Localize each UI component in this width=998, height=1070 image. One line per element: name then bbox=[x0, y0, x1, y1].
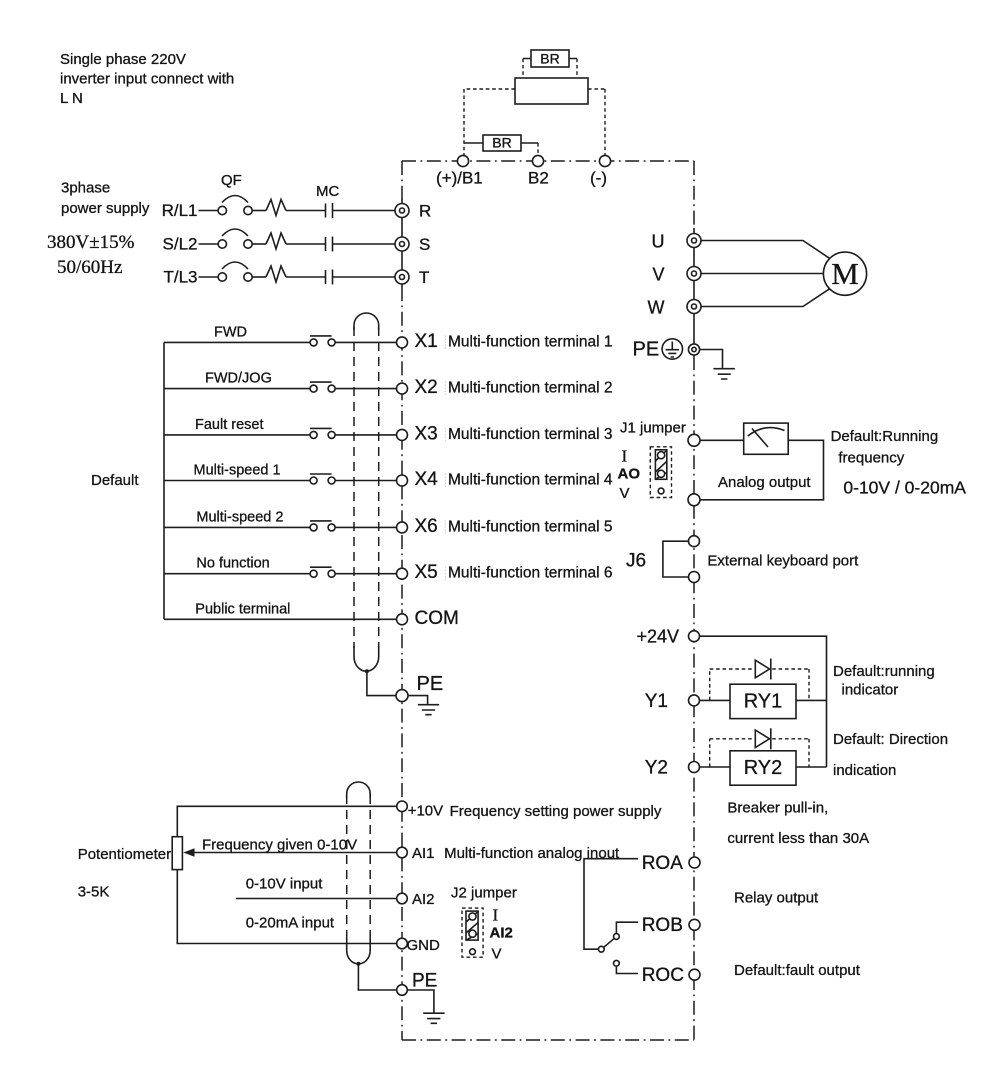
svg-text:indication: indication bbox=[833, 762, 896, 779]
svg-text:B2: B2 bbox=[528, 169, 549, 188]
terminal X6 bbox=[397, 522, 408, 533]
wire S/L2 to breaker bbox=[199, 243, 219, 245]
wire contactor to terminal T bbox=[333, 276, 396, 278]
inverter enclosure left edge bbox=[401, 161, 403, 198]
terminal GND bbox=[397, 937, 440, 954]
resistor BR (top) bbox=[523, 50, 577, 67]
breaker QF pole T bbox=[218, 273, 226, 281]
wire +10V loop bbox=[177, 806, 396, 836]
svg-text:inverter input connect with: inverter input connect with bbox=[60, 71, 234, 88]
svg-text:X3: X3 bbox=[415, 423, 438, 444]
wire RY1 to 24V rail bbox=[796, 699, 827, 701]
terminal B2 bbox=[532, 155, 543, 166]
svg-text:External keyboard port: External keyboard port bbox=[707, 553, 859, 570]
overload zigzag R bbox=[266, 200, 286, 216]
wire switch to terminal X5 bbox=[335, 573, 397, 575]
switch X5 bbox=[310, 570, 317, 577]
wire dashed reactor left to (+)/B1 bbox=[464, 89, 515, 155]
wire AO to meter bbox=[700, 439, 744, 441]
svg-text:X6: X6 bbox=[415, 516, 438, 537]
wire PE to ground bbox=[700, 350, 723, 369]
svg-text:X5: X5 bbox=[415, 562, 438, 583]
svg-text:S/L2: S/L2 bbox=[163, 235, 198, 254]
wire AI2 bbox=[236, 898, 397, 900]
shielded cable (digital inputs) bbox=[354, 313, 397, 696]
switch X3 bbox=[310, 431, 317, 438]
svg-text:Y1: Y1 bbox=[645, 691, 668, 712]
inverter enclosure bottom edge bbox=[402, 1039, 694, 1041]
relay common contact bbox=[598, 946, 604, 952]
wire overload to contactor T bbox=[286, 276, 326, 278]
wire shield 2 to PE bbox=[358, 964, 396, 990]
input bus wire (left) bbox=[163, 342, 165, 619]
svg-text:FWD: FWD bbox=[214, 324, 247, 340]
svg-text:Default: Direction: Default: Direction bbox=[833, 731, 948, 748]
svg-text:+10V: +10V bbox=[408, 803, 443, 820]
wire bus to switch X6 bbox=[164, 526, 310, 528]
terminal S bbox=[395, 237, 409, 251]
relay coil RY1 bbox=[730, 684, 796, 718]
wire AI1 with arrow to pot bbox=[193, 852, 397, 854]
switch X1 bbox=[310, 339, 317, 346]
wire U to motor bbox=[701, 241, 830, 259]
svg-text:T/L3: T/L3 bbox=[163, 268, 197, 287]
wire switch to terminal X2 bbox=[335, 388, 397, 390]
svg-text:BR: BR bbox=[492, 135, 511, 151]
svg-text:J1 jumper: J1 jumper bbox=[620, 420, 686, 437]
svg-text:Default: Default bbox=[91, 472, 139, 489]
wire contactor to terminal R bbox=[333, 210, 396, 212]
wire R/L1 to breaker bbox=[199, 210, 219, 212]
svg-text:current less than 30A: current less than 30A bbox=[727, 830, 869, 847]
svg-text:(+)/B1: (+)/B1 bbox=[436, 169, 483, 188]
svg-text:Public terminal: Public terminal bbox=[195, 601, 290, 617]
svg-text:3phase: 3phase bbox=[61, 180, 110, 197]
terminal PE (control) bbox=[396, 673, 443, 702]
svg-text:No function: No function bbox=[196, 556, 269, 572]
inverter enclosure right edge bbox=[693, 161, 695, 228]
svg-text:V: V bbox=[620, 485, 630, 502]
input COM (Public terminal) bbox=[164, 601, 459, 629]
svg-text:J2 jumper: J2 jumper bbox=[451, 885, 517, 902]
terminal ROC bbox=[642, 965, 700, 986]
svg-text:FWD/JOG: FWD/JOG bbox=[205, 371, 272, 387]
svg-text:indicator: indicator bbox=[842, 681, 899, 698]
svg-text:X4: X4 bbox=[415, 469, 439, 490]
freewheel diode RY1 (dashed branch) bbox=[710, 659, 809, 701]
shielded cable (analog inputs) bbox=[347, 782, 397, 990]
svg-text:X2: X2 bbox=[415, 377, 438, 398]
switch X4 bbox=[310, 477, 317, 484]
connector J6 bbox=[626, 536, 700, 583]
wire meter loop to AO common bbox=[700, 440, 824, 500]
wire bus to switch X1 bbox=[164, 341, 310, 343]
wire breaker to overload S bbox=[252, 243, 266, 245]
contactor MC contact S bbox=[325, 237, 327, 251]
terminal (+)/B1 bbox=[457, 155, 468, 166]
svg-text:Y2: Y2 bbox=[645, 758, 668, 779]
terminal +10V bbox=[397, 801, 443, 820]
wire switch to terminal X3 bbox=[335, 434, 397, 436]
svg-text:Relay output: Relay output bbox=[734, 890, 819, 907]
terminal PE (analog) bbox=[397, 971, 438, 996]
terminal X2 bbox=[397, 383, 408, 394]
wire Y2 to RY2 bbox=[700, 766, 731, 768]
shield drain junction 2 bbox=[356, 962, 360, 966]
terminal V bbox=[652, 264, 701, 284]
jumper J1 bbox=[618, 420, 686, 503]
svg-text:RY1: RY1 bbox=[744, 690, 783, 712]
terminal T bbox=[395, 270, 409, 284]
wire dashed BR top to reactor box bbox=[523, 59, 577, 79]
switch X6 bbox=[310, 524, 317, 531]
svg-text:PE: PE bbox=[417, 673, 444, 695]
wire switch to terminal X6 bbox=[335, 526, 397, 528]
terminal X3 bbox=[397, 429, 408, 440]
terminal PE (output side) bbox=[633, 339, 700, 361]
wire dashed BR lower to B2 bbox=[537, 143, 539, 155]
terminal X5 bbox=[397, 568, 408, 579]
contactor MC contact T bbox=[325, 270, 327, 284]
terminal AO common bbox=[688, 494, 700, 506]
terminal X1 bbox=[397, 337, 408, 348]
svg-text:+24V: +24V bbox=[637, 627, 680, 647]
jumper J2 bbox=[451, 885, 517, 963]
ground (output PE) bbox=[713, 369, 735, 379]
wire bus to switch X2 bbox=[164, 388, 310, 390]
svg-text:Multi-function terminal 2: Multi-function terminal 2 bbox=[448, 380, 613, 397]
wire pot lower to GND bbox=[177, 870, 396, 944]
relay NC contact ROC bbox=[614, 960, 620, 966]
svg-text:GND: GND bbox=[407, 937, 441, 954]
motor M bbox=[823, 252, 866, 295]
svg-text:Multi-function terminal 5: Multi-function terminal 5 bbox=[448, 518, 613, 535]
svg-text:ROB: ROB bbox=[642, 915, 683, 936]
wire +24V rail bbox=[700, 636, 827, 767]
wire breaker to overload T bbox=[252, 276, 266, 278]
wire W to motor bbox=[701, 289, 830, 307]
svg-text:Frequency given 0-10V: Frequency given 0-10V bbox=[202, 837, 357, 854]
svg-text:W: W bbox=[648, 297, 665, 317]
svg-text:3-5K: 3-5K bbox=[78, 884, 110, 901]
shield drain junction bbox=[365, 669, 369, 673]
terminal Y1 bbox=[645, 691, 700, 712]
svg-text:ROA: ROA bbox=[642, 853, 684, 874]
svg-text:0-20mA input: 0-20mA input bbox=[246, 915, 335, 932]
phase input S/L2 bbox=[163, 229, 431, 254]
ground (analog PE) bbox=[423, 1013, 444, 1023]
wire PE to ground bbox=[408, 696, 428, 705]
wire contactor to terminal S bbox=[333, 243, 396, 245]
switch X2 bbox=[310, 385, 317, 392]
input X1 (FWD) bbox=[164, 324, 613, 352]
svg-text:0-10V / 0-20mA: 0-10V / 0-20mA bbox=[843, 478, 966, 498]
svg-text:Fault reset: Fault reset bbox=[195, 417, 264, 433]
ground (control PE) bbox=[418, 705, 439, 715]
terminal +24V bbox=[637, 627, 700, 647]
overload zigzag S bbox=[266, 233, 286, 249]
svg-text:0-10V input: 0-10V input bbox=[246, 876, 324, 893]
svg-text:380V±15%: 380V±15% bbox=[47, 232, 135, 253]
svg-text:R: R bbox=[419, 202, 431, 221]
svg-text:Single phase 220V: Single phase 220V bbox=[60, 51, 186, 68]
svg-text:Multi-function terminal 4: Multi-function terminal 4 bbox=[448, 472, 613, 489]
analog meter bbox=[744, 423, 789, 454]
svg-text:MC: MC bbox=[316, 183, 339, 200]
svg-text:Default:Running: Default:Running bbox=[831, 428, 939, 445]
terminal ROB bbox=[642, 915, 700, 936]
contactor MC contact R bbox=[325, 204, 327, 218]
svg-text:Breaker pull-in,: Breaker pull-in, bbox=[727, 799, 828, 816]
svg-text:L N: L N bbox=[60, 90, 83, 107]
terminal AO bbox=[688, 434, 700, 446]
input X4 (Multi-speed 1) bbox=[164, 463, 613, 491]
wire breaker to overload R bbox=[252, 210, 266, 212]
reactor box (unlabeled) bbox=[515, 78, 588, 104]
freewheel diode RY2 (dashed branch) bbox=[710, 728, 809, 767]
svg-text:AI2: AI2 bbox=[412, 891, 435, 908]
svg-text:power supply: power supply bbox=[61, 200, 150, 217]
svg-text:R/L1: R/L1 bbox=[162, 201, 198, 220]
input X3 (Fault reset) bbox=[164, 417, 613, 445]
input X5 (No function) bbox=[164, 556, 613, 584]
terminal AI2 bbox=[397, 891, 435, 908]
overload zigzag T bbox=[266, 266, 286, 282]
svg-text:ROC: ROC bbox=[642, 965, 684, 986]
svg-text:Default:fault output: Default:fault output bbox=[734, 962, 861, 979]
svg-text:Multi-function terminal 6: Multi-function terminal 6 bbox=[448, 565, 613, 582]
svg-text:PE: PE bbox=[633, 339, 660, 361]
wire Y1 to RY1 bbox=[700, 699, 731, 701]
wire ROC contact bbox=[616, 966, 638, 973]
terminal Y2 bbox=[645, 758, 700, 779]
inverter enclosure top edge bbox=[402, 160, 694, 162]
svg-text:M: M bbox=[831, 256, 859, 291]
svg-text:RY2: RY2 bbox=[744, 757, 783, 779]
wire overload to contactor R bbox=[286, 210, 326, 212]
wire overload to contactor S bbox=[286, 243, 326, 245]
terminal (-) bbox=[599, 155, 610, 166]
svg-text:50/60Hz: 50/60Hz bbox=[57, 257, 122, 278]
wire ROB contact bbox=[616, 922, 638, 933]
terminal R bbox=[395, 204, 409, 218]
wire ROA feed bbox=[584, 859, 638, 950]
wire dashed reactor right to (-) bbox=[588, 89, 605, 155]
relay coil RY2 bbox=[730, 751, 796, 785]
phase input R/L1 bbox=[162, 196, 432, 221]
breaker QF pole R bbox=[218, 206, 226, 214]
svg-text:X1: X1 bbox=[415, 331, 438, 352]
wire switch to terminal X1 bbox=[335, 341, 397, 343]
svg-text:Multi-function terminal 3: Multi-function terminal 3 bbox=[448, 426, 613, 443]
wire bus to switch X5 bbox=[164, 573, 310, 575]
input X2 (FWD/JOG) bbox=[164, 371, 613, 399]
terminal ROA bbox=[642, 853, 700, 874]
svg-text:Multi-speed 2: Multi-speed 2 bbox=[196, 509, 283, 525]
terminal U bbox=[652, 231, 702, 251]
wire V to motor bbox=[701, 273, 824, 275]
wire switch to terminal X4 bbox=[335, 480, 397, 482]
wire shield to PE bbox=[367, 671, 397, 695]
svg-text:Default:running: Default:running bbox=[833, 663, 935, 680]
svg-text:U: U bbox=[652, 231, 665, 251]
wire bus to switch X4 bbox=[164, 480, 310, 482]
svg-text:AO: AO bbox=[618, 466, 641, 483]
breaker QF pole S bbox=[218, 240, 226, 248]
wire bus to switch X3 bbox=[164, 434, 310, 436]
terminal W bbox=[648, 297, 702, 317]
svg-text:AI1: AI1 bbox=[412, 845, 435, 862]
svg-text:BR: BR bbox=[540, 51, 559, 67]
svg-text:Frequency setting power supply: Frequency setting power supply bbox=[450, 803, 662, 820]
wire RY2 to 24V rail bbox=[796, 766, 827, 768]
svg-text:AI2: AI2 bbox=[490, 924, 513, 941]
input X6 (Multi-speed 2) bbox=[164, 509, 613, 537]
svg-text:Potentiometer: Potentiometer bbox=[78, 846, 171, 863]
svg-text:(-): (-) bbox=[590, 169, 607, 188]
svg-text:I: I bbox=[622, 447, 628, 466]
svg-text:COM: COM bbox=[415, 608, 459, 629]
terminal COM bbox=[397, 614, 408, 625]
svg-text:frequency: frequency bbox=[838, 450, 904, 467]
svg-text:J6: J6 bbox=[626, 551, 646, 572]
protective earth symbol in circle bbox=[662, 339, 682, 359]
phase input T/L3 bbox=[163, 262, 429, 287]
svg-text:QF: QF bbox=[221, 172, 242, 189]
svg-text:V: V bbox=[652, 264, 664, 284]
resistor BR (lower) bbox=[464, 135, 538, 152]
wire T/L3 to breaker bbox=[199, 276, 219, 278]
svg-text:S: S bbox=[419, 235, 430, 254]
wire PE analog to ground bbox=[407, 990, 434, 1013]
terminal X4 bbox=[397, 475, 408, 486]
wire bus to terminal COM bbox=[164, 618, 397, 620]
svg-text:V: V bbox=[492, 945, 502, 962]
svg-text:PE: PE bbox=[412, 971, 437, 992]
potentiometer bbox=[78, 837, 183, 901]
svg-text:Multi-speed 1: Multi-speed 1 bbox=[194, 463, 281, 479]
svg-text:Analog output: Analog output bbox=[718, 474, 811, 491]
svg-text:I: I bbox=[493, 906, 499, 925]
svg-text:T: T bbox=[419, 268, 429, 287]
terminal AI1 bbox=[397, 845, 435, 862]
svg-text:Multi-function terminal 1: Multi-function terminal 1 bbox=[448, 333, 613, 350]
relay moving arm bbox=[604, 939, 614, 948]
